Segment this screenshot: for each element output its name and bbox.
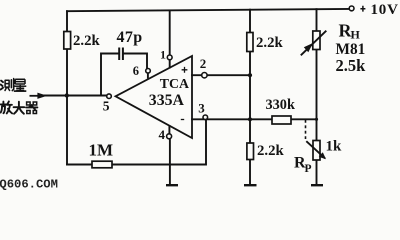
svg-text:47p: 47p	[117, 29, 143, 46]
svg-text:2.5k: 2.5k	[336, 56, 367, 75]
svg-text:H: H	[351, 28, 361, 42]
svg-text:10V: 10V	[371, 2, 399, 18]
svg-text:3: 3	[198, 101, 205, 116]
svg-text:2.2k: 2.2k	[256, 35, 283, 51]
svg-text:2: 2	[200, 56, 207, 71]
svg-text:Q606.COM: Q606.COM	[0, 178, 58, 191]
svg-text:335A: 335A	[149, 92, 185, 109]
svg-text:2.2k: 2.2k	[257, 143, 284, 159]
svg-text:TCA: TCA	[160, 76, 189, 91]
svg-text:P: P	[305, 163, 312, 175]
svg-text:1k: 1k	[326, 139, 343, 155]
svg-text:2.2k: 2.2k	[73, 33, 100, 49]
svg-text:1: 1	[160, 48, 166, 62]
svg-text:330k: 330k	[266, 97, 295, 113]
svg-text:5: 5	[103, 99, 110, 114]
svg-text:1M: 1M	[89, 141, 114, 160]
svg-text:6: 6	[133, 64, 139, 78]
svg-text:4: 4	[159, 127, 166, 142]
